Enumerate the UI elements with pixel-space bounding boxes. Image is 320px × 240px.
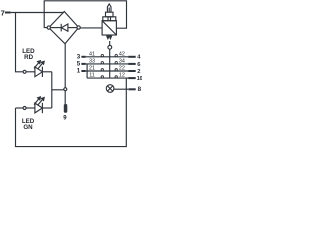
wire to mech circle	[109, 41, 111, 45]
svg-text:9: 9	[63, 115, 67, 121]
svg-text:34: 34	[119, 58, 125, 64]
mech connector circle	[108, 45, 112, 49]
combiner branch to junction	[52, 89, 64, 91]
svg-text:42: 42	[119, 51, 125, 57]
right return vertical and bottom wire	[16, 78, 127, 147]
contact row 2 (33-34)	[81, 62, 135, 64]
contact row 1 (41-42)	[81, 54, 135, 56]
svg-text:4: 4	[137, 55, 141, 61]
junction node circle	[64, 88, 67, 91]
bridge right vertex circle	[77, 26, 80, 29]
svg-text:10: 10	[137, 76, 142, 82]
svg-text:3: 3	[77, 54, 81, 61]
svg-text:7: 7	[1, 9, 5, 18]
svg-text:41: 41	[89, 51, 95, 57]
terminal 8 stub	[128, 88, 135, 90]
labels	[1, 9, 143, 131]
terminal 7 stub	[5, 12, 11, 14]
solenoid coil box	[102, 21, 116, 35]
svg-text:GN: GN	[23, 124, 33, 131]
bridge bottom wire down	[64, 44, 66, 104]
svg-text:22: 22	[119, 66, 125, 72]
mechanism link line	[109, 49, 111, 78]
svg-text:11: 11	[89, 73, 95, 79]
svg-text:6: 6	[137, 62, 141, 68]
svg-text:33: 33	[89, 58, 95, 64]
wire 7 to bridge top vertex	[11, 12, 64, 14]
diode inside bridge	[50, 24, 77, 32]
svg-text:12: 12	[119, 73, 125, 79]
svg-text:RD: RD	[24, 54, 33, 61]
collar pins	[107, 17, 109, 21]
contact row 3 (21-22)	[81, 69, 135, 71]
LED combiner vertical	[51, 72, 53, 108]
contact row 4 (11-12)	[87, 76, 136, 78]
wire left branch down to LED RD	[16, 13, 24, 72]
bridge left vertex circle	[47, 26, 50, 29]
LED RD	[23, 61, 52, 77]
svg-text:5: 5	[77, 61, 81, 68]
lamp	[106, 85, 128, 93]
svg-text:21: 21	[89, 66, 95, 72]
plug pins below coil	[107, 35, 112, 39]
bridge rectifier diamond	[49, 12, 79, 44]
coil diagonal	[102, 21, 116, 35]
LED GN	[16, 97, 52, 113]
plug collar	[103, 17, 116, 21]
terminal 9 bar	[64, 104, 68, 113]
wire loop: left vertex up over top, down right side to coil	[44, 1, 126, 28]
wire bridge right vertex to coil left side	[80, 27, 102, 29]
plug mid rect	[106, 12, 114, 17]
left bus vertical	[86, 64, 88, 78]
plug tip	[107, 4, 111, 12]
svg-text:8: 8	[138, 86, 142, 93]
svg-text:1: 1	[77, 68, 81, 75]
svg-text:2: 2	[137, 69, 140, 75]
